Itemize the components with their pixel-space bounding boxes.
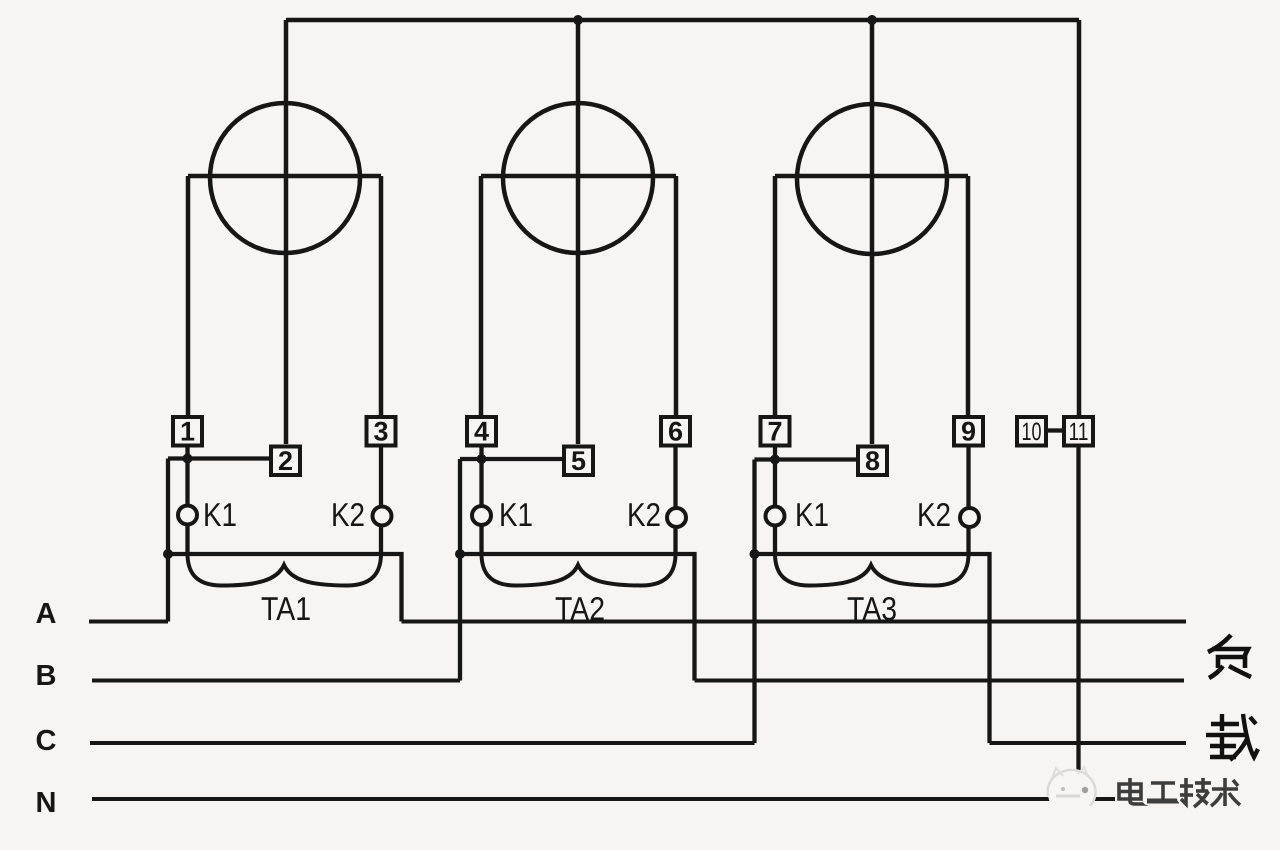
node: rail junction at element 3 bbox=[867, 15, 877, 25]
node: junction of K1 lead and voltage tap (TA1) bbox=[183, 454, 193, 464]
wire: phase riser for TA1 primary bbox=[166, 459, 170, 622]
wire: W1 left current lead to terminal 1 bbox=[186, 176, 191, 415]
svg-text:11: 11 bbox=[1069, 418, 1089, 446]
wire: W2 current coil chord bbox=[481, 174, 676, 179]
svg-text:K2: K2 bbox=[627, 496, 661, 533]
terminal K2 circle (TA3) bbox=[960, 508, 979, 527]
wire: voltage tap from riser to terminal (element TA1) bbox=[168, 456, 269, 460]
wire: W1 current coil chord bbox=[188, 174, 381, 179]
meter element W2 (circle) bbox=[503, 103, 653, 253]
meter element W3 (circle) bbox=[797, 104, 947, 254]
wire: phase riser for TA3 primary bbox=[752, 460, 756, 744]
terminal box 1 bbox=[173, 417, 202, 447]
terminal box 9 bbox=[954, 417, 983, 447]
wire: phase bus B segment 1 bbox=[92, 679, 460, 683]
wire: K1 lead from terminal through test link (TA1) bbox=[185, 446, 189, 555]
watermark character shu bbox=[1211, 778, 1240, 806]
svg-text:7: 7 bbox=[767, 417, 782, 447]
terminal K1 circle (TA1) bbox=[178, 506, 197, 525]
terminal box 2 bbox=[271, 446, 300, 476]
svg-text:K1: K1 bbox=[795, 496, 829, 533]
wire: meter element 3 voltage lead bbox=[870, 20, 875, 444]
wire: K2 lead from terminal through test link (TA3) bbox=[966, 446, 970, 555]
node: junction of riser and TA3 primary bbox=[750, 549, 760, 559]
svg-text:N: N bbox=[36, 787, 57, 819]
wire: TA2 primary conductor and drop to bus bbox=[460, 554, 695, 681]
label load character 2 (zai) bbox=[1206, 714, 1258, 760]
current transformer TA2 secondary winding bbox=[482, 555, 676, 586]
wire: link between terminal 10 and terminal 11 bbox=[1047, 428, 1063, 432]
terminal box 7 bbox=[761, 417, 790, 447]
label load character 1 (fu) bbox=[1208, 635, 1251, 678]
wire: TA3 primary conductor and drop to bus bbox=[755, 554, 990, 743]
wire: phase bus C segment 1 bbox=[90, 741, 755, 745]
watermark character dian bbox=[1119, 778, 1146, 804]
wire: K1 lead from terminal through test link (TA2) bbox=[479, 446, 483, 555]
wire: phase riser for TA2 primary bbox=[458, 459, 462, 681]
wire: phase bus A segment 1 bbox=[89, 620, 168, 624]
svg-text:3: 3 bbox=[373, 417, 388, 447]
wire: phase bus C segment 2 bbox=[990, 741, 1187, 745]
terminal K1 circle (TA2) bbox=[472, 506, 491, 525]
node: junction of K1 lead and voltage tap (TA3) bbox=[770, 455, 780, 465]
terminal box 4 bbox=[467, 417, 496, 447]
wire: W2 right current lead to terminal 6 bbox=[674, 176, 679, 415]
wire: phase bus B segment 2 bbox=[695, 679, 1185, 683]
node: rail junction at element 2 bbox=[573, 15, 583, 25]
current transformer TA3 secondary winding bbox=[775, 555, 969, 586]
node: junction of K1 lead and voltage tap (TA2) bbox=[477, 454, 487, 464]
terminal K1 circle (TA3) bbox=[766, 507, 785, 526]
terminal K2 circle (TA1) bbox=[373, 507, 392, 526]
svg-text:K1: K1 bbox=[499, 496, 533, 533]
wire: W3 current coil chord bbox=[775, 174, 968, 179]
wire: K2 lead from terminal through test link (TA2) bbox=[673, 446, 677, 555]
svg-text:4: 4 bbox=[474, 417, 489, 447]
svg-text:TA1: TA1 bbox=[261, 590, 311, 627]
wire: W2 left current lead to terminal 4 bbox=[479, 176, 484, 415]
wire: meter element 2 voltage lead bbox=[576, 20, 581, 444]
node: junction of riser and TA2 primary bbox=[455, 549, 465, 559]
terminal box 6 bbox=[661, 417, 690, 447]
svg-text:B: B bbox=[36, 660, 57, 692]
svg-text:K2: K2 bbox=[331, 496, 365, 533]
svg-text:K1: K1 bbox=[203, 496, 237, 533]
wire: phase bus N segment 1 bbox=[92, 797, 1177, 801]
watermark character gong bbox=[1147, 783, 1179, 801]
wire: K2 lead from terminal through test link (TA1) bbox=[379, 446, 383, 555]
wire: neutral drop from terminal 11 to bus N bbox=[1076, 446, 1080, 800]
wire: W3 left current lead to terminal 7 bbox=[773, 176, 778, 415]
terminal box 11 bbox=[1064, 417, 1093, 446]
wire: top voltage rail bbox=[286, 18, 1079, 23]
svg-text:C: C bbox=[36, 725, 57, 757]
terminal box 5 bbox=[564, 446, 593, 476]
wire: neutral drop from rail to terminal 11 bbox=[1077, 20, 1082, 415]
node: junction of riser and TA1 primary bbox=[163, 549, 173, 559]
wire: phase bus A segment 2 bbox=[402, 620, 1187, 624]
watermark logo (light circle mascot) bbox=[1048, 767, 1096, 817]
wire: voltage tap from riser to terminal (element TA2) bbox=[460, 457, 562, 461]
wire: TA1 primary conductor and drop to bus bbox=[168, 554, 402, 622]
svg-text:6: 6 bbox=[668, 417, 683, 447]
wire: meter element 1 voltage lead bbox=[284, 20, 289, 444]
svg-text:5: 5 bbox=[571, 446, 586, 476]
svg-text:A: A bbox=[36, 598, 57, 630]
watermark character ji bbox=[1180, 778, 1211, 807]
terminal K2 circle (TA2) bbox=[667, 508, 686, 527]
current transformer TA1 secondary winding bbox=[188, 555, 382, 586]
svg-text:9: 9 bbox=[961, 417, 976, 447]
wire: voltage tap from riser to terminal (element TA3) bbox=[755, 457, 857, 461]
terminal box 10 bbox=[1017, 417, 1046, 446]
terminal box 8 bbox=[858, 446, 887, 476]
svg-text:1: 1 bbox=[180, 417, 195, 447]
svg-text:10: 10 bbox=[1022, 418, 1042, 446]
svg-text:8: 8 bbox=[865, 446, 880, 476]
wire: K1 lead from terminal through test link (TA3) bbox=[773, 446, 777, 555]
wire: W3 right current lead to terminal 9 bbox=[966, 176, 971, 415]
meter element W1 (circle) bbox=[210, 103, 360, 253]
svg-text:K2: K2 bbox=[917, 496, 951, 533]
svg-text:2: 2 bbox=[278, 446, 293, 476]
terminal box 3 bbox=[367, 417, 396, 447]
wire: W1 right current lead to terminal 3 bbox=[379, 176, 384, 415]
